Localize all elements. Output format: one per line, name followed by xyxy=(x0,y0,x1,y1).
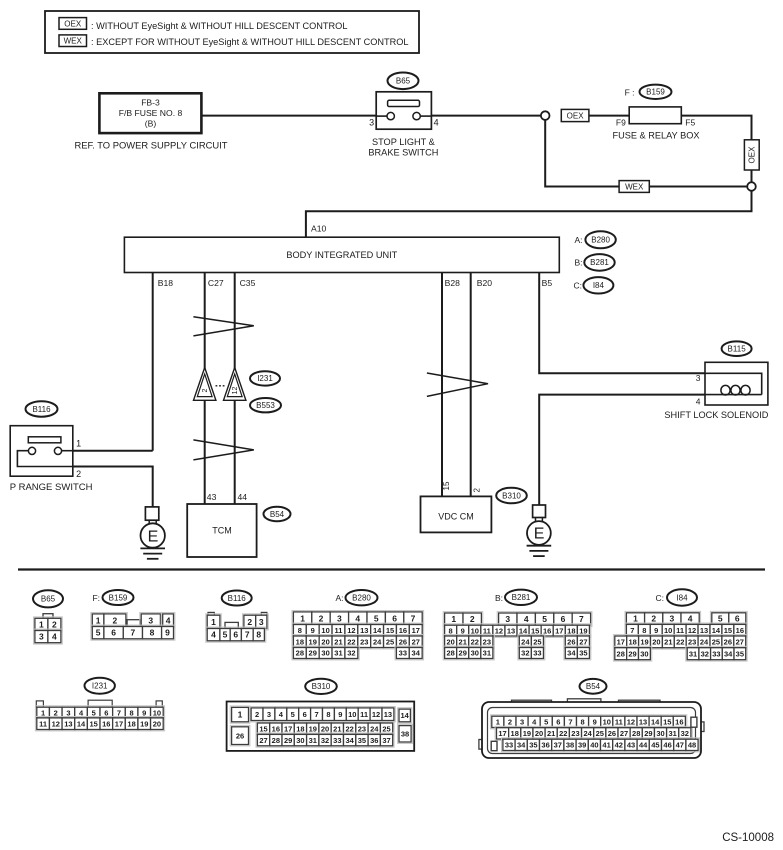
svg-text:36: 36 xyxy=(370,736,378,745)
svg-text:: EXCEPT FOR WITHOUT EyeSight: : EXCEPT FOR WITHOUT EyeSight & WITHOUT … xyxy=(91,37,409,47)
fuse F9-F5 fuse and relay box xyxy=(629,107,681,124)
wire solenoid pin 4 to ground xyxy=(539,395,705,505)
wire WEX branch xyxy=(545,120,747,187)
svg-text:22: 22 xyxy=(345,724,353,733)
svg-text:32: 32 xyxy=(347,649,355,658)
svg-text:SHIFT LOCK SOLENOID: SHIFT LOCK SOLENOID xyxy=(664,410,768,420)
svg-text:29: 29 xyxy=(644,729,652,738)
svg-text:4: 4 xyxy=(688,614,693,624)
svg-text:7: 7 xyxy=(245,630,250,640)
svg-text:23: 23 xyxy=(571,729,579,738)
svg-text:15: 15 xyxy=(90,719,98,728)
svg-text:A:: A: xyxy=(574,235,582,245)
wire node B down to A10 xyxy=(306,191,752,237)
svg-text:6: 6 xyxy=(104,708,108,717)
svg-text:5: 5 xyxy=(544,718,548,727)
svg-text:38: 38 xyxy=(401,730,409,739)
svg-text:13: 13 xyxy=(360,626,368,635)
svg-text:5: 5 xyxy=(542,614,547,624)
svg-text:C:: C: xyxy=(574,280,583,290)
svg-text:STOP LIGHT &: STOP LIGHT & xyxy=(372,137,435,147)
svg-text:5: 5 xyxy=(291,710,295,719)
svg-text:16: 16 xyxy=(102,719,110,728)
svg-text:24: 24 xyxy=(521,637,530,646)
dotted joint between triangles xyxy=(216,385,225,387)
svg-text:3: 3 xyxy=(337,613,342,623)
svg-text:33: 33 xyxy=(533,649,541,658)
wire B5 to shift lock solenoid pin 3 xyxy=(539,273,705,374)
legend box xyxy=(45,11,419,53)
svg-text:B281: B281 xyxy=(512,593,531,602)
svg-text:I84: I84 xyxy=(593,281,605,290)
svg-text:26: 26 xyxy=(608,729,616,738)
svg-text:42: 42 xyxy=(615,741,623,750)
svg-text:32: 32 xyxy=(701,649,709,658)
wire B20 to VDC CM pin 2 xyxy=(470,273,472,497)
svg-text:11: 11 xyxy=(39,719,47,728)
svg-text:I231: I231 xyxy=(257,374,273,383)
svg-text:20: 20 xyxy=(321,724,329,733)
svg-text:45: 45 xyxy=(651,741,659,750)
svg-text:CS-10008: CS-10008 xyxy=(722,832,774,844)
svg-text:28: 28 xyxy=(617,649,625,658)
svg-text:(B): (B) xyxy=(145,119,157,129)
connector label B65 xyxy=(388,73,419,90)
svg-text:14: 14 xyxy=(651,718,660,727)
svg-text:FB-3: FB-3 xyxy=(141,98,160,108)
TCM box xyxy=(187,504,256,557)
svg-text:1: 1 xyxy=(211,617,216,627)
OEX tag on top branch xyxy=(561,109,589,121)
svg-text:4: 4 xyxy=(211,630,216,640)
connector label I231 bottom xyxy=(85,678,115,694)
svg-text:11: 11 xyxy=(615,718,623,727)
svg-text:E: E xyxy=(534,526,545,543)
svg-text:4: 4 xyxy=(355,613,360,623)
svg-text:16: 16 xyxy=(675,718,683,727)
ground E left xyxy=(145,507,158,520)
svg-text:19: 19 xyxy=(309,724,317,733)
svg-text:35: 35 xyxy=(579,649,587,658)
svg-text:B310: B310 xyxy=(502,491,521,500)
svg-text:27: 27 xyxy=(412,637,420,646)
svg-text:11: 11 xyxy=(483,626,491,635)
connector label B116 bottom xyxy=(222,591,252,606)
svg-text:33: 33 xyxy=(712,649,720,658)
svg-text:7: 7 xyxy=(131,628,136,638)
svg-text:1: 1 xyxy=(633,614,638,624)
svg-text:25: 25 xyxy=(596,729,604,738)
svg-text:17: 17 xyxy=(412,626,420,635)
svg-text:F9: F9 xyxy=(616,118,626,128)
svg-text:15: 15 xyxy=(386,626,394,635)
svg-text:19: 19 xyxy=(140,719,148,728)
svg-text:3: 3 xyxy=(259,617,264,627)
svg-text:1: 1 xyxy=(41,708,45,717)
svg-text:14: 14 xyxy=(77,719,86,728)
svg-text:29: 29 xyxy=(459,649,467,658)
svg-text:B28: B28 xyxy=(445,278,461,288)
legend OEX tag xyxy=(59,18,87,30)
svg-text:8: 8 xyxy=(449,626,453,635)
fuse FB-3 box xyxy=(99,93,201,133)
svg-text:1: 1 xyxy=(300,613,305,623)
svg-text:26: 26 xyxy=(724,638,732,647)
twisted pair symbol upper xyxy=(193,317,253,336)
svg-text:7: 7 xyxy=(579,614,584,624)
svg-text:9: 9 xyxy=(311,626,315,635)
connector label I231 xyxy=(250,371,280,385)
svg-text:3: 3 xyxy=(696,373,701,383)
svg-text:20: 20 xyxy=(652,638,660,647)
svg-text:4: 4 xyxy=(696,396,701,406)
svg-text:26: 26 xyxy=(567,637,575,646)
svg-text:2: 2 xyxy=(113,615,118,625)
svg-text:B65: B65 xyxy=(41,595,56,604)
svg-text:35: 35 xyxy=(736,649,744,658)
svg-text:17: 17 xyxy=(498,729,506,738)
svg-text:16: 16 xyxy=(543,626,551,635)
svg-text:18: 18 xyxy=(296,637,304,646)
svg-text:43: 43 xyxy=(627,741,635,750)
svg-text:10: 10 xyxy=(603,718,611,727)
svg-text:10: 10 xyxy=(471,626,479,635)
svg-text:5: 5 xyxy=(374,613,379,623)
svg-text:36: 36 xyxy=(541,741,549,750)
svg-text:29: 29 xyxy=(284,736,292,745)
twisted pair symbol VDC xyxy=(427,373,488,396)
svg-text:22: 22 xyxy=(471,637,479,646)
svg-text:21: 21 xyxy=(547,729,555,738)
svg-text:B280: B280 xyxy=(352,594,371,603)
svg-text:3: 3 xyxy=(267,710,271,719)
svg-text:30: 30 xyxy=(296,736,304,745)
svg-text:34: 34 xyxy=(412,649,421,658)
svg-text:9: 9 xyxy=(593,718,597,727)
svg-text:44: 44 xyxy=(639,741,648,750)
OEX tag vertical xyxy=(744,140,759,170)
wire FB-3 to brake switch xyxy=(201,115,376,117)
connector label B115 xyxy=(722,341,752,356)
svg-text:31: 31 xyxy=(334,649,342,658)
svg-text:12: 12 xyxy=(688,626,696,635)
svg-text:17: 17 xyxy=(284,724,292,733)
VDC CM box xyxy=(421,496,492,532)
svg-text:27: 27 xyxy=(620,729,628,738)
svg-text:F:: F: xyxy=(92,593,100,603)
svg-text:22: 22 xyxy=(347,637,355,646)
svg-text:12: 12 xyxy=(627,718,635,727)
svg-text:46: 46 xyxy=(663,741,671,750)
svg-text:B159: B159 xyxy=(109,593,128,602)
wire C35 to TCM pin 44 xyxy=(234,273,236,505)
connector pinout B281 xyxy=(443,612,483,627)
svg-text:B65: B65 xyxy=(396,77,411,86)
svg-text:5: 5 xyxy=(92,708,96,717)
svg-text:2: 2 xyxy=(508,718,512,727)
svg-text:13: 13 xyxy=(507,626,515,635)
svg-text:2: 2 xyxy=(76,469,81,479)
svg-text:34: 34 xyxy=(345,736,354,745)
svg-text:1: 1 xyxy=(451,614,456,624)
svg-text:F5: F5 xyxy=(685,118,695,128)
svg-text:19: 19 xyxy=(523,729,531,738)
svg-text:OEX: OEX xyxy=(748,146,757,164)
svg-text:C27: C27 xyxy=(208,278,224,288)
svg-text:1: 1 xyxy=(238,710,243,720)
switch B116 P range switch xyxy=(10,426,73,477)
svg-text:24: 24 xyxy=(700,638,709,647)
svg-text:B5: B5 xyxy=(542,278,553,288)
svg-text:15: 15 xyxy=(531,626,539,635)
svg-text:19: 19 xyxy=(579,626,587,635)
svg-text:20: 20 xyxy=(153,719,161,728)
svg-text:1: 1 xyxy=(39,619,44,629)
svg-text:16: 16 xyxy=(736,626,744,635)
svg-text:7: 7 xyxy=(568,718,572,727)
svg-text:B:: B: xyxy=(495,593,503,603)
svg-text:14: 14 xyxy=(401,711,410,720)
connector pinout I84 xyxy=(625,611,701,625)
svg-text:8: 8 xyxy=(642,626,646,635)
svg-text:OEX: OEX xyxy=(64,19,82,28)
connector label B310 at VDC CM xyxy=(496,488,527,504)
svg-text:6: 6 xyxy=(735,614,740,624)
svg-text:6: 6 xyxy=(233,630,238,640)
node junction B xyxy=(747,182,756,191)
svg-text:B159: B159 xyxy=(646,88,665,97)
wire fuse F5 to right vertical xyxy=(681,116,751,183)
svg-text:10: 10 xyxy=(664,626,672,635)
svg-text:24: 24 xyxy=(583,729,592,738)
svg-text:33: 33 xyxy=(505,741,513,750)
svg-text:TCM: TCM xyxy=(212,526,232,536)
svg-text:14: 14 xyxy=(373,626,382,635)
svg-text:22: 22 xyxy=(676,638,684,647)
svg-text:F :: F : xyxy=(625,87,635,97)
svg-text:15: 15 xyxy=(442,481,451,490)
svg-text:24: 24 xyxy=(373,637,382,646)
svg-text:15: 15 xyxy=(259,724,267,733)
connector label B65 bottom xyxy=(33,590,63,607)
svg-text:7: 7 xyxy=(630,626,634,635)
svg-text:12: 12 xyxy=(347,626,355,635)
svg-text:17: 17 xyxy=(617,638,625,647)
svg-text:5: 5 xyxy=(223,630,228,640)
svg-text:34: 34 xyxy=(517,741,526,750)
svg-text:21: 21 xyxy=(664,638,672,647)
svg-text:16: 16 xyxy=(272,724,280,733)
svg-text:44: 44 xyxy=(238,492,248,502)
svg-text:VDC CM: VDC CM xyxy=(438,512,474,522)
svg-text:B281: B281 xyxy=(590,258,609,267)
svg-text:48: 48 xyxy=(688,741,696,750)
svg-text:7: 7 xyxy=(117,708,121,717)
svg-text:C:: C: xyxy=(656,593,665,603)
svg-text:FUSE & RELAY BOX: FUSE & RELAY BOX xyxy=(613,130,700,140)
svg-text:A:: A: xyxy=(335,593,343,603)
svg-text:22: 22 xyxy=(559,729,567,738)
svg-text:19: 19 xyxy=(640,638,648,647)
svg-text:2: 2 xyxy=(54,708,58,717)
separator line xyxy=(18,568,765,570)
switch B65 stop light and brake switch xyxy=(376,92,431,129)
svg-text:20: 20 xyxy=(446,637,454,646)
svg-text:28: 28 xyxy=(272,736,280,745)
inline connector triangle B553 xyxy=(224,368,246,401)
svg-text:3: 3 xyxy=(670,614,675,624)
svg-text:BODY INTEGRATED UNIT: BODY INTEGRATED UNIT xyxy=(286,250,397,260)
WEX tag xyxy=(619,181,649,193)
svg-text:3: 3 xyxy=(66,708,70,717)
wire B18 to P range switch pin 1 xyxy=(152,273,154,451)
svg-text:32: 32 xyxy=(521,649,529,658)
svg-text:9: 9 xyxy=(654,626,658,635)
svg-text:37: 37 xyxy=(554,741,562,750)
wire brake switch to junction node xyxy=(431,115,541,117)
svg-text:30: 30 xyxy=(321,649,329,658)
svg-text:8: 8 xyxy=(326,710,330,719)
wire OEX tag to fuse F9 xyxy=(589,115,629,117)
svg-text:6: 6 xyxy=(303,710,307,719)
svg-text:32: 32 xyxy=(321,736,329,745)
connector pinout B116 xyxy=(208,612,214,615)
svg-text:18: 18 xyxy=(628,638,636,647)
svg-text:A10: A10 xyxy=(311,224,327,234)
svg-text:3: 3 xyxy=(505,614,510,624)
connector pinout B159 xyxy=(91,613,127,628)
svg-text:16: 16 xyxy=(399,626,407,635)
svg-text:9: 9 xyxy=(142,708,146,717)
svg-text:12: 12 xyxy=(372,710,380,719)
svg-text:B54: B54 xyxy=(270,510,285,519)
svg-text:13: 13 xyxy=(700,626,708,635)
svg-text:9: 9 xyxy=(338,710,342,719)
svg-text:8: 8 xyxy=(580,718,584,727)
svg-text:18: 18 xyxy=(511,729,519,738)
svg-text:2: 2 xyxy=(255,710,259,719)
svg-text:18: 18 xyxy=(127,719,135,728)
svg-text:30: 30 xyxy=(640,649,648,658)
svg-text:43: 43 xyxy=(207,492,217,502)
svg-text:21: 21 xyxy=(334,637,342,646)
svg-text:12: 12 xyxy=(495,626,503,635)
svg-text:23: 23 xyxy=(688,638,696,647)
svg-text:15: 15 xyxy=(663,718,671,727)
svg-text:4: 4 xyxy=(52,632,57,642)
svg-text:8: 8 xyxy=(256,630,261,640)
svg-text:11: 11 xyxy=(676,626,684,635)
connector label B116 at switch xyxy=(26,401,58,416)
svg-text:11: 11 xyxy=(360,710,368,719)
svg-text:4: 4 xyxy=(166,615,171,625)
svg-text:30: 30 xyxy=(471,649,479,658)
svg-text:31: 31 xyxy=(483,649,491,658)
svg-text:7: 7 xyxy=(411,613,416,623)
svg-text:REF. TO POWER SUPPLY CIRCUIT: REF. TO POWER SUPPLY CIRCUIT xyxy=(75,140,228,151)
svg-text:2: 2 xyxy=(319,613,324,623)
svg-text:17: 17 xyxy=(555,626,563,635)
svg-text:19: 19 xyxy=(309,637,317,646)
svg-text:5: 5 xyxy=(718,614,723,624)
svg-text:35: 35 xyxy=(529,741,537,750)
connector pinout B65 xyxy=(43,614,53,619)
svg-text:23: 23 xyxy=(483,637,491,646)
node junction A xyxy=(541,111,550,120)
svg-text:18: 18 xyxy=(567,626,575,635)
svg-text:I231: I231 xyxy=(92,682,108,691)
svg-text:34: 34 xyxy=(567,649,576,658)
svg-text:B116: B116 xyxy=(32,405,51,414)
svg-text:1: 1 xyxy=(76,438,81,448)
svg-text:B115: B115 xyxy=(728,345,747,354)
svg-text:25: 25 xyxy=(533,637,541,646)
svg-text:B18: B18 xyxy=(158,278,174,288)
svg-text:8: 8 xyxy=(298,626,302,635)
svg-text:27: 27 xyxy=(259,736,267,745)
svg-text:13: 13 xyxy=(639,718,647,727)
svg-text:7: 7 xyxy=(314,710,318,719)
connector label B553 xyxy=(250,398,281,412)
svg-text:35: 35 xyxy=(358,736,366,745)
ground E right xyxy=(533,505,546,518)
svg-text:20: 20 xyxy=(535,729,543,738)
svg-text:8: 8 xyxy=(130,708,134,717)
svg-text:30: 30 xyxy=(656,729,664,738)
svg-text:2: 2 xyxy=(202,388,209,392)
svg-text:6: 6 xyxy=(392,613,397,623)
svg-text:C35: C35 xyxy=(240,278,256,288)
connector label B54 bottom xyxy=(580,679,607,694)
svg-text:2: 2 xyxy=(472,488,481,493)
svg-text:1: 1 xyxy=(496,718,500,727)
svg-text:25: 25 xyxy=(382,724,390,733)
svg-text:24: 24 xyxy=(370,724,379,733)
svg-text:6: 6 xyxy=(111,628,116,638)
svg-text:11: 11 xyxy=(335,626,343,635)
svg-text:: WITHOUT EyeSight & WITHOUT H: : WITHOUT EyeSight & WITHOUT HILL DESCEN… xyxy=(91,21,347,31)
connector pinout B310 xyxy=(227,702,415,751)
svg-text:2: 2 xyxy=(470,614,475,624)
svg-text:10: 10 xyxy=(153,708,161,717)
svg-text:OEX: OEX xyxy=(567,111,585,120)
svg-text:4: 4 xyxy=(434,118,439,128)
svg-text:47: 47 xyxy=(676,741,684,750)
svg-text:F/B FUSE NO. 8: F/B FUSE NO. 8 xyxy=(119,108,183,118)
solenoid B115 shift lock solenoid xyxy=(705,362,768,405)
svg-text:1: 1 xyxy=(96,615,101,625)
svg-text:31: 31 xyxy=(689,649,697,658)
svg-text:26: 26 xyxy=(236,731,244,740)
svg-text:23: 23 xyxy=(358,724,366,733)
connector pinout B280 xyxy=(292,611,424,626)
svg-text:WEX: WEX xyxy=(625,182,644,191)
svg-text:B116: B116 xyxy=(228,594,247,603)
svg-text:31: 31 xyxy=(669,729,677,738)
svg-text:27: 27 xyxy=(736,638,744,647)
svg-text:25: 25 xyxy=(386,637,394,646)
connector pinout I231 xyxy=(36,701,43,707)
svg-text:21: 21 xyxy=(459,637,467,646)
twisted pair symbol lower xyxy=(193,440,253,460)
svg-text:34: 34 xyxy=(724,649,733,658)
svg-text:40: 40 xyxy=(590,741,598,750)
svg-text:23: 23 xyxy=(360,637,368,646)
svg-text:B310: B310 xyxy=(312,682,331,691)
svg-text:27: 27 xyxy=(579,637,587,646)
svg-text:31: 31 xyxy=(309,736,317,745)
svg-text:3: 3 xyxy=(148,615,153,625)
